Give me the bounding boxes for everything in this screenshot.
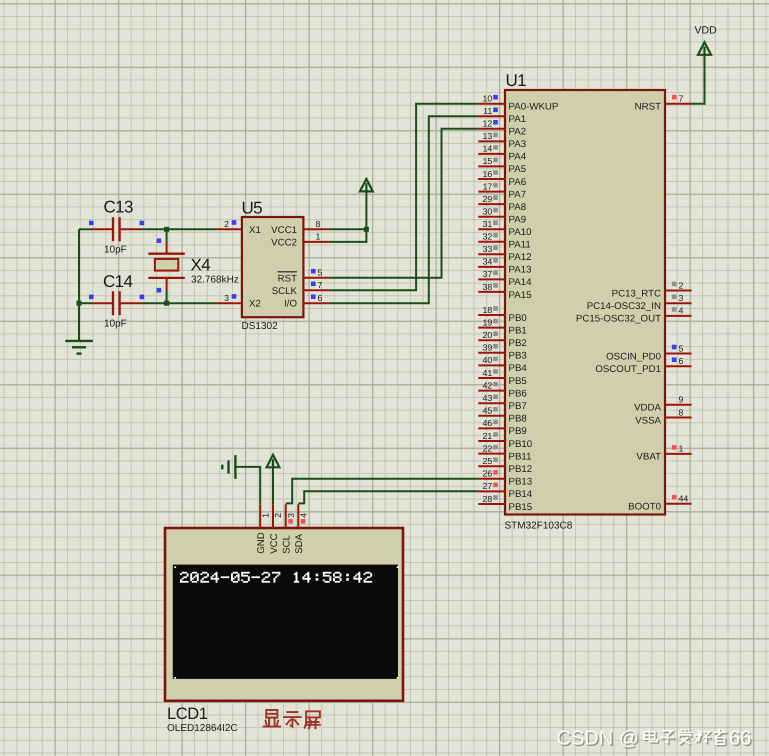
LCD1 pin 1 (260, 504, 270, 528)
svg-text:3: 3 (286, 513, 296, 518)
svg-text:17: 17 (483, 181, 493, 191)
U1 pin 38 PA15 (478, 282, 531, 301)
svg-text:15: 15 (483, 156, 493, 166)
svg-text:PB7: PB7 (509, 401, 527, 412)
svg-text:PA4: PA4 (509, 152, 527, 163)
svg-text:5: 5 (679, 343, 684, 353)
ground (65, 341, 93, 354)
svg-text:1: 1 (679, 444, 684, 454)
svg-text:4: 4 (299, 513, 309, 518)
C14 value 10pF (104, 319, 127, 330)
U1 pin 43 PB7 (478, 393, 527, 412)
U1 pin 8 VSSA (635, 407, 691, 426)
svg-text:SCL: SCL (282, 534, 293, 553)
power symbol (U5 VCC) (360, 179, 373, 192)
svg-text:VCC2: VCC2 (271, 238, 297, 249)
U1 pin 33 PA12 (478, 244, 531, 263)
U1 pin 5 OSCIN_PD0 (606, 343, 692, 362)
svg-text:PB9: PB9 (509, 426, 527, 437)
svg-text:16: 16 (483, 169, 493, 179)
svg-text:PB6: PB6 (509, 388, 527, 399)
U1 pin 13 PA3 (478, 131, 526, 150)
U1 pin 20 PB2 (478, 330, 527, 349)
U1 pin 27 PB14 (478, 481, 533, 500)
svg-text:RST: RST (278, 273, 297, 284)
power symbol (LCD VCC) (267, 455, 280, 468)
svg-text:1: 1 (316, 232, 321, 242)
svg-text:PA5: PA5 (509, 164, 527, 175)
svg-text:PB12: PB12 (509, 464, 533, 475)
svg-text:PB1: PB1 (509, 325, 527, 336)
svg-text:31: 31 (483, 219, 493, 229)
U1 pin 6 OSCOUT_PD1 (595, 356, 691, 375)
svg-text:PA11: PA11 (509, 240, 531, 251)
VDD label (695, 25, 718, 37)
U1 pin 15 PA5 (478, 156, 526, 175)
U1 pin 9 VDDA (634, 395, 692, 414)
wire SCLK to PA0 (329, 104, 479, 291)
svg-text:PA0-WKUP: PA0-WKUP (509, 102, 559, 113)
U5 pin 8 VCC1 (303, 219, 328, 229)
svg-text:13: 13 (483, 131, 493, 141)
U1 pin 4 PC15-OSC32_OUT (576, 306, 692, 325)
svg-text:VDD: VDD (695, 25, 718, 37)
显示屏 display label (263, 710, 319, 728)
svg-text:PA8: PA8 (509, 202, 527, 213)
svg-text:10: 10 (483, 94, 493, 104)
svg-text:PB13: PB13 (509, 477, 533, 488)
svg-text:PB11: PB11 (509, 451, 532, 462)
U1 pin 31 PA10 (478, 219, 532, 238)
svg-text:8: 8 (316, 219, 321, 229)
svg-text:2: 2 (273, 513, 283, 518)
svg-text:2: 2 (224, 219, 229, 229)
U1 pin 3 PC14-OSC32_IN (587, 293, 692, 312)
svg-text:7: 7 (679, 94, 684, 104)
svg-text:SDA: SDA (294, 533, 305, 553)
svg-text:PA7: PA7 (509, 189, 527, 200)
U1 reference label (506, 71, 527, 90)
X4 pin state indicators (157, 238, 162, 292)
X4 value 32.768kHz (191, 274, 239, 285)
crystal X4 (148, 242, 184, 291)
LCD pin label SDA (294, 533, 305, 553)
svg-text:PA10: PA10 (509, 227, 533, 238)
wire NRST to VDD (692, 55, 705, 103)
U1 pin 46 PB9 (478, 418, 527, 437)
C14 pin state indicators (89, 295, 144, 300)
svg-text:20: 20 (483, 330, 493, 340)
LCD1 OLED display body (165, 528, 403, 701)
svg-text:OSCOUT_PD1: OSCOUT_PD1 (595, 364, 661, 375)
capacitor C13 (92, 217, 141, 241)
svg-text:PA12: PA12 (509, 252, 532, 263)
LCD screen (173, 565, 399, 679)
U1 pin 39 PB3 (478, 343, 527, 362)
svg-text:DS1302: DS1302 (242, 321, 279, 332)
U1 pin 12 PA2 (478, 119, 526, 138)
svg-text:2: 2 (679, 280, 684, 290)
svg-text:PA3: PA3 (509, 139, 527, 150)
svg-text:22: 22 (483, 443, 493, 453)
svg-text:C13: C13 (104, 197, 134, 216)
svg-text:OSCIN_PD0: OSCIN_PD0 (606, 351, 662, 362)
U1 pin 19 PB1 (478, 317, 527, 336)
svg-text:VCC: VCC (269, 533, 280, 553)
svg-text:18: 18 (483, 305, 493, 315)
svg-text:PA15: PA15 (509, 290, 532, 301)
svg-text:9: 9 (679, 395, 684, 405)
svg-text:VBAT: VBAT (636, 452, 661, 463)
svg-text:C14: C14 (103, 272, 133, 291)
svg-text:46: 46 (483, 418, 493, 428)
LCD1 pin 4 (298, 504, 308, 528)
U1 pin 34 PA13 (478, 257, 531, 276)
svg-text:VCC1: VCC1 (271, 225, 297, 236)
svg-text:66: 66 (729, 728, 751, 750)
wire left vertical to ground (78, 229, 80, 341)
svg-text:SCLK: SCLK (272, 286, 298, 297)
capacitor C14 (92, 291, 141, 315)
svg-text:12: 12 (483, 119, 493, 129)
power symbol VDD (698, 42, 711, 55)
svg-text:PA13: PA13 (509, 265, 532, 276)
svg-text:PB15: PB15 (509, 502, 533, 513)
U1 pin 7 NRST (635, 94, 692, 113)
svg-text:40: 40 (483, 355, 493, 365)
U1 pin 21 PB10 (478, 431, 533, 450)
svg-text:1: 1 (260, 513, 270, 518)
svg-text:GND: GND (256, 532, 267, 554)
svg-text:PB5: PB5 (509, 376, 527, 387)
node ground net junction (77, 301, 82, 306)
LCD screen text 2024-05-27 14:58:42 (180, 572, 372, 583)
svg-text:PB4: PB4 (509, 363, 528, 374)
wire LCD GND pin to ground (235, 467, 260, 504)
svg-text:3: 3 (679, 293, 684, 303)
svg-text:PB0: PB0 (509, 313, 528, 324)
svg-text:37: 37 (483, 269, 493, 279)
svg-text:U5: U5 (242, 199, 263, 218)
svg-text:PB10: PB10 (509, 439, 533, 450)
svg-text:19: 19 (483, 317, 493, 327)
svg-text:PA9: PA9 (509, 215, 527, 226)
svg-text:PB3: PB3 (509, 351, 527, 362)
wire VCC2 to power net (329, 192, 367, 242)
wire C14 right to U5 X2 (141, 302, 217, 304)
svg-text:30: 30 (483, 207, 493, 217)
C13 pin state indicators (89, 221, 144, 226)
U5 pin 3 X2 (216, 293, 242, 303)
svg-text:X4: X4 (191, 256, 211, 275)
U1 pin 2 PC13_RTC (612, 280, 692, 299)
U5 pin 7 SCLK (303, 280, 328, 290)
svg-text:LCD1: LCD1 (167, 705, 208, 723)
svg-text:8: 8 (679, 407, 684, 417)
U1 pin 32 PA11 (478, 232, 530, 251)
X4 label (191, 256, 211, 275)
U1 pin 17 PA7 (478, 181, 526, 200)
svg-text:41: 41 (483, 368, 493, 378)
node power junction (364, 227, 369, 232)
svg-text:10pF: 10pF (104, 245, 127, 256)
op-amp U5 body (DS1302 RTC) (242, 217, 304, 317)
wire C13 left to net (79, 228, 92, 230)
svg-text:PA14: PA14 (509, 277, 533, 288)
svg-text:6: 6 (679, 356, 684, 366)
U1 pin 37 PA14 (478, 269, 532, 288)
svg-text:7: 7 (318, 280, 323, 290)
U1 pin 11 PA1 (478, 106, 526, 125)
LCD pin label GND (256, 532, 267, 554)
wire RST to PA2 (329, 129, 479, 278)
U1 pin 30 PA9 (478, 207, 526, 226)
C13 value 10pF (104, 245, 127, 256)
svg-text:43: 43 (483, 393, 493, 403)
U1 pin 1 VBAT (636, 444, 691, 463)
svg-text:PB14: PB14 (509, 489, 533, 500)
U5 value DS1302 (242, 321, 279, 332)
svg-text:OLED12864I2C: OLED12864I2C (167, 723, 238, 734)
wire X4 top pin to node (166, 229, 168, 242)
LCD pin label VCC (269, 533, 280, 553)
U5 pin 1 VCC2 (303, 232, 328, 242)
U1 pin 14 PA4 (478, 144, 526, 163)
svg-text:26: 26 (483, 469, 493, 479)
watermark CSDN @电子爱好者66 (557, 728, 753, 751)
svg-text:32.768kHz: 32.768kHz (191, 274, 239, 285)
LCD1 pin 2 (273, 504, 283, 528)
svg-text:PA1: PA1 (509, 114, 527, 125)
svg-text:33: 33 (483, 244, 493, 254)
U1 pin 45 PB8 (478, 406, 527, 425)
U1 pin 40 PB4 (478, 355, 527, 374)
wire LCD VCC pin to power (272, 467, 274, 504)
svg-text:28: 28 (483, 494, 493, 504)
U5 reference label (242, 199, 263, 218)
U5 pin 2 X1 (216, 219, 242, 229)
svg-text:VSSA: VSSA (635, 415, 661, 426)
op-amp U1 body (STM32F103C8 MCU) (505, 90, 665, 515)
svg-text:PC14-OSC32_IN: PC14-OSC32_IN (587, 301, 661, 312)
U1 pin 41 PB5 (478, 368, 527, 387)
LCD1 reference label (167, 705, 208, 723)
svg-text:4: 4 (679, 306, 684, 316)
svg-text:10pF: 10pF (104, 319, 127, 330)
U1 pin 16 PA6 (478, 169, 526, 188)
svg-text:X2: X2 (249, 299, 261, 310)
svg-text:U1: U1 (506, 71, 527, 90)
wire X4 bottom pin to node (166, 291, 168, 304)
wire LCD SCL to PB13 (286, 479, 479, 504)
svg-text:BOOT0: BOOT0 (628, 502, 661, 513)
ground (LCD GND) (222, 455, 235, 479)
U1 pin 25 PB12 (478, 456, 532, 475)
wire C13 right to U5 X1 (141, 228, 217, 230)
LCD1 pin 3 (286, 504, 296, 528)
U1 pin 10 PA0-WKUP (478, 94, 558, 113)
svg-text:PC13_RTC: PC13_RTC (612, 288, 661, 299)
node X2 net junction (164, 301, 169, 306)
svg-text:PB2: PB2 (509, 338, 527, 349)
U1 pin 26 PB13 (478, 469, 532, 488)
svg-text:3: 3 (224, 293, 229, 303)
svg-text:38: 38 (483, 282, 493, 292)
wire C14 left (79, 302, 92, 304)
U5 pin 5 RST (303, 267, 328, 277)
svg-text:27: 27 (483, 481, 493, 491)
U1 value STM32F103C8 (505, 521, 573, 532)
C13 label (104, 197, 134, 216)
wire VCC1 to power net (329, 228, 367, 230)
U5 pin 6 I/O (303, 293, 328, 303)
svg-text:PC15-OSC32_OUT: PC15-OSC32_OUT (576, 314, 661, 325)
svg-text:32: 32 (483, 232, 493, 242)
C14 label (103, 272, 133, 291)
svg-text:11: 11 (483, 106, 492, 116)
svg-text:44: 44 (679, 494, 689, 504)
svg-text:PA2: PA2 (509, 127, 527, 138)
svg-text:CSDN @: CSDN @ (557, 728, 640, 750)
U1 pin 28 PB15 (478, 494, 532, 513)
U1 pin 22 PB11 (478, 443, 531, 462)
LCD1 value OLED12864I2C (167, 723, 238, 734)
svg-text:42: 42 (483, 380, 493, 390)
svg-text:VDDA: VDDA (634, 403, 661, 414)
svg-text:6: 6 (318, 293, 323, 303)
U1 pin 42 PB6 (478, 380, 527, 399)
LCD pin label SCL (282, 534, 293, 553)
svg-text:PA6: PA6 (509, 177, 527, 188)
svg-text:45: 45 (483, 406, 493, 416)
svg-text:29: 29 (483, 194, 493, 204)
wire I/O to PA1 (329, 116, 479, 303)
wire LCD SDA to PB14 (298, 491, 478, 503)
svg-text:34: 34 (483, 257, 493, 267)
svg-text:21: 21 (483, 431, 493, 441)
svg-text:14: 14 (483, 144, 493, 154)
U1 pin 44 BOOT0 (628, 494, 691, 513)
U1 pin 18 PB0 (478, 305, 527, 324)
svg-text:39: 39 (483, 343, 493, 353)
svg-text:PB8: PB8 (509, 414, 527, 425)
svg-text:25: 25 (483, 456, 493, 466)
svg-text:X1: X1 (249, 225, 261, 236)
U1 pin 29 PA8 (478, 194, 526, 213)
svg-text:NRST: NRST (635, 102, 661, 113)
svg-text:STM32F103C8: STM32F103C8 (505, 521, 573, 532)
svg-text:5: 5 (318, 267, 323, 277)
node X1 net junction (164, 227, 169, 232)
svg-text:I/O: I/O (284, 299, 297, 310)
